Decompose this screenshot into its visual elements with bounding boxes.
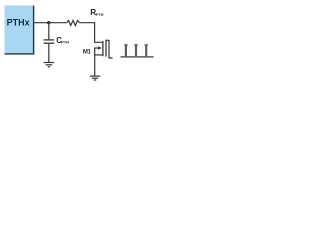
MOSFET M1 gate bar	[102, 41, 104, 56]
background	[0, 0, 160, 89]
MOSFET M1 channel bar	[105, 40, 107, 57]
capacitor C_PTH plates	[44, 40, 55, 43]
svg-text:PTH: PTH	[61, 40, 69, 45]
IC block (PTHx pin block)	[5, 6, 35, 55]
wire resistor to MOSFET gate (right then down)	[79, 23, 102, 43]
pulse 1	[124, 45, 127, 57]
svg-text:M1: M1	[83, 49, 92, 55]
wire capacitor to ground	[48, 44, 50, 62]
node junction dot	[47, 21, 50, 24]
svg-text:PTHx: PTHx	[7, 18, 30, 28]
MOSFET M1 source stub	[94, 54, 103, 56]
ground (under M1 source)	[90, 76, 100, 80]
pulse 2	[134, 45, 137, 57]
wire from PTHx pin to resistor	[34, 22, 67, 24]
resistor R_PTH zigzag	[67, 20, 80, 25]
wire junction to capacitor	[48, 23, 50, 40]
wire body/source tie down to ground	[94, 48, 96, 76]
svg-text:PTH: PTH	[96, 12, 104, 17]
pulse waveform baseline	[121, 56, 154, 58]
pulse 3	[145, 45, 148, 57]
ground (under C_PTH)	[44, 63, 55, 67]
MOSFET M1 body arrow	[94, 46, 102, 50]
MOSFET M1 drain lead (down and out)	[106, 40, 112, 58]
